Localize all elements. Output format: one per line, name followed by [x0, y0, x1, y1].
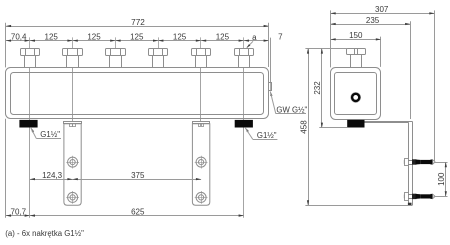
svg-text:150: 150	[349, 31, 363, 40]
extension line beam right edge	[268, 23, 270, 67]
dimension 232	[313, 48, 323, 127]
extension line beam left edge (top)	[5, 23, 7, 68]
svg-text:124,3: 124,3	[42, 171, 63, 180]
extension line top (nut top level)	[305, 48, 347, 50]
svg-text:a: a	[252, 33, 257, 42]
side view body outer	[331, 68, 381, 120]
dimension 307	[331, 5, 435, 14]
svg-text:772: 772	[131, 18, 145, 27]
svg-text:232: 232	[313, 81, 322, 95]
top port nut 5 (G1 1/2)	[192, 37, 211, 127]
svg-text:125: 125	[87, 32, 101, 41]
svg-text:100: 100	[437, 172, 446, 186]
label G1 1/2 left nut with leader	[31, 128, 61, 139]
side port GW G1/2 stub	[269, 82, 272, 91]
anchor bolt 1	[404, 159, 435, 166]
dimension 150	[331, 31, 382, 40]
manifold beam inner contour	[11, 73, 264, 115]
top port nut 4 (G1 1/2)	[149, 37, 168, 67]
label GW G1/2 with leader	[270, 91, 307, 114]
dimension 7	[278, 33, 283, 42]
svg-text:235: 235	[366, 16, 380, 25]
extension line bottom nut level	[319, 127, 347, 129]
svg-text:G1½": G1½"	[257, 131, 277, 140]
svg-text:375: 375	[131, 171, 145, 180]
side view top nut	[347, 48, 366, 67]
wall bracket (L-shape) side view	[365, 121, 413, 205]
anchor bolt 2	[404, 193, 435, 201]
bottom connection nut right (filled)	[235, 120, 253, 128]
svg-text:125: 125	[130, 32, 144, 41]
dimension 70,7 and 625	[6, 208, 244, 217]
top port nut 6 (G1 1/2)	[235, 37, 254, 217]
dimension 772	[6, 18, 269, 27]
mounting leg 1	[64, 122, 82, 206]
svg-text:7: 7	[278, 33, 283, 42]
dimension 235	[331, 16, 411, 25]
extension line 235 right (bracket face)	[410, 21, 412, 119]
label G1 1/2 right nut with leader	[245, 128, 277, 140]
svg-text:GW G½": GW G½"	[276, 106, 307, 115]
dimension 458	[299, 48, 309, 205]
extension line bracket bottom level	[305, 205, 411, 207]
extension line side port face	[270, 38, 272, 82]
svg-text:70,7: 70,7	[11, 208, 27, 217]
dimension 100	[434, 162, 448, 197]
side view centre port hole	[351, 93, 361, 103]
svg-text:125: 125	[45, 32, 59, 41]
svg-text:307: 307	[375, 5, 389, 14]
mounting leg 2	[192, 122, 209, 206]
top port nut 2 (G1 1/2)	[63, 37, 83, 127]
svg-text:125: 125	[216, 32, 230, 41]
top port nut 3 (G1 1/2)	[106, 37, 126, 67]
extension line 307 right (bolt tip)	[434, 10, 436, 161]
note (a) - 6x nakretka G1 1/2	[5, 229, 84, 238]
side view body inner contour	[335, 73, 377, 115]
manifold beam outer body	[6, 68, 269, 119]
extension line 150 right (body right edge)	[380, 37, 382, 67]
extension line beam left edge (bottom)	[5, 119, 7, 218]
svg-text:458: 458	[299, 120, 308, 134]
label a with leader to nut 6	[247, 33, 258, 48]
extension line side body left edge	[330, 10, 332, 67]
dimension row 70,4 / 125 x5	[6, 32, 269, 41]
top port nut 1 (G1 1/2)	[21, 37, 40, 217]
side view bottom nut (filled)	[347, 120, 364, 128]
bottom connection nut left (filled)	[19, 120, 37, 128]
svg-text:125: 125	[173, 32, 187, 41]
svg-text:625: 625	[131, 208, 145, 217]
svg-text:G1½": G1½"	[40, 130, 60, 139]
dimension 124,3 and 375	[30, 171, 201, 180]
svg-text:70,4: 70,4	[11, 32, 27, 41]
svg-text:(a) - 6x nakrętka G1½": (a) - 6x nakrętka G1½"	[5, 229, 84, 238]
